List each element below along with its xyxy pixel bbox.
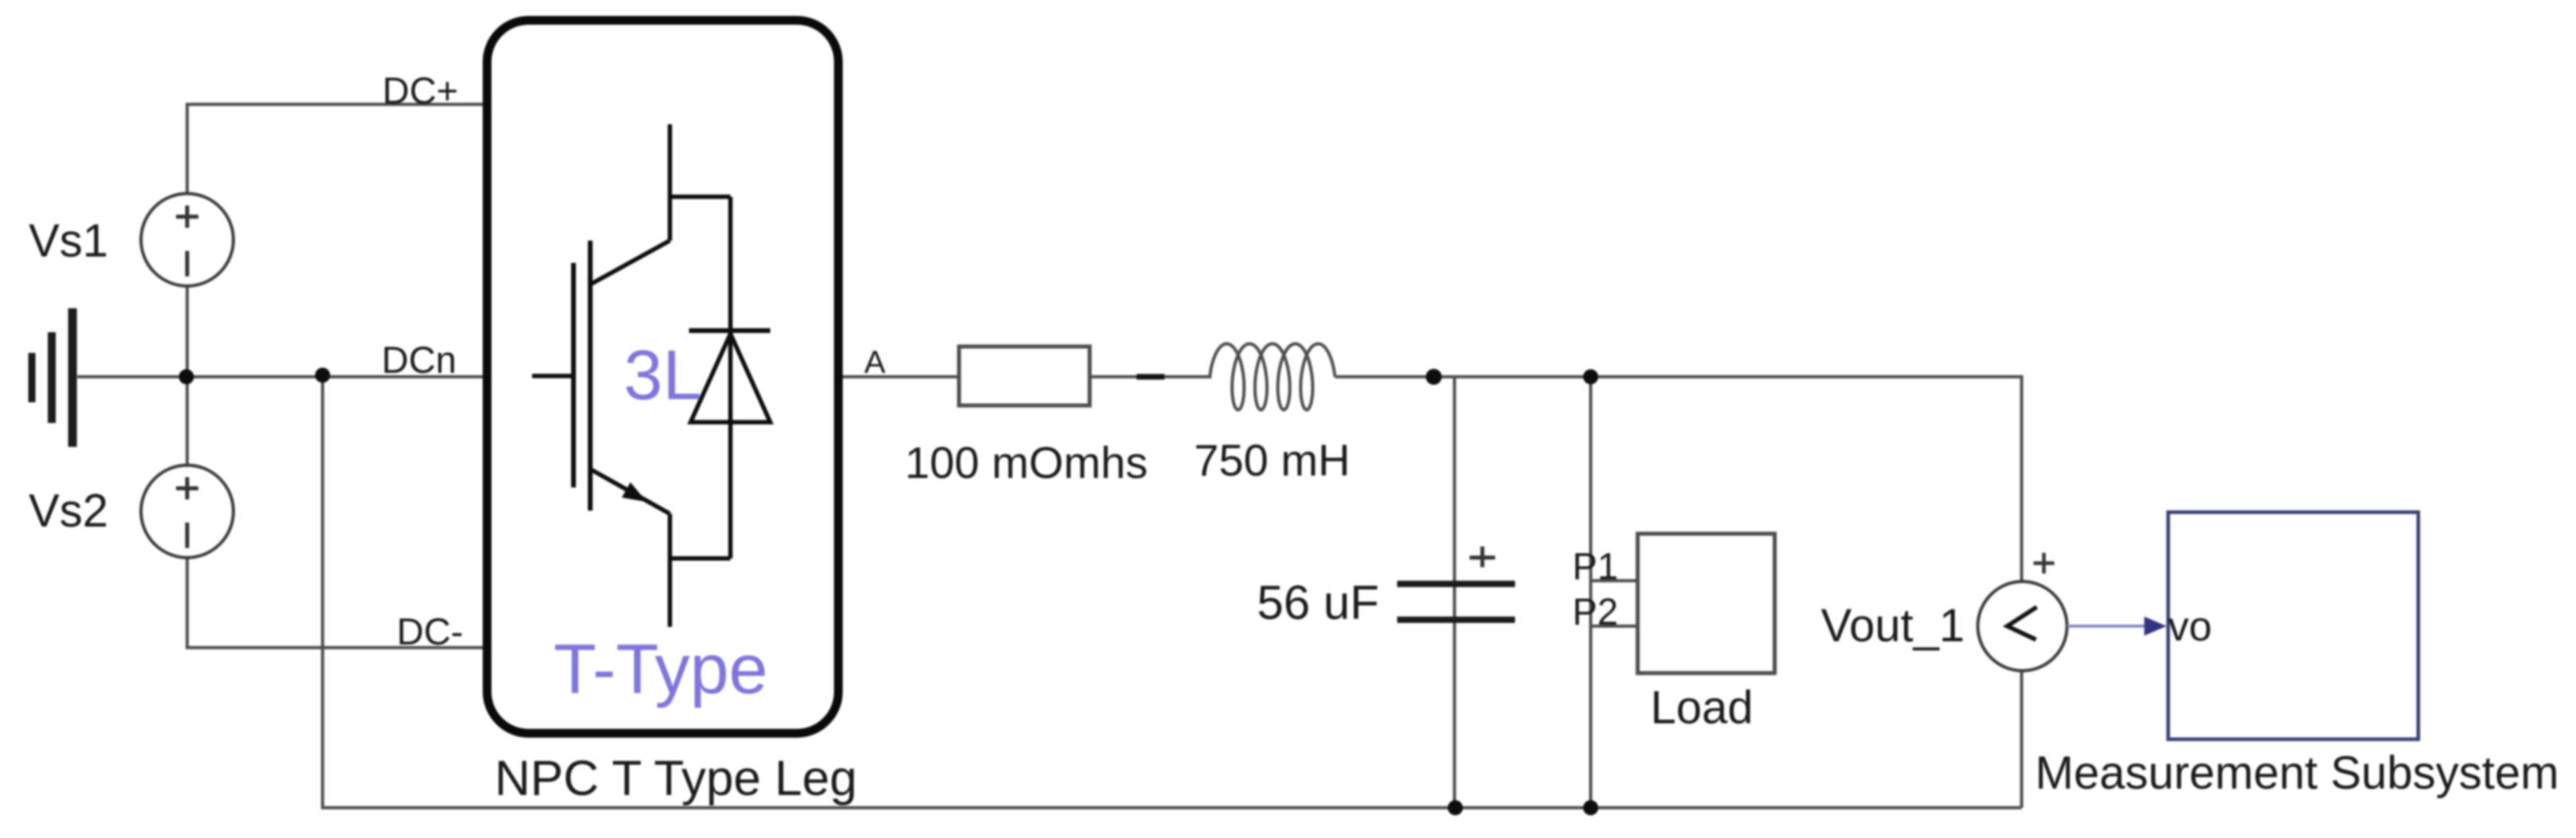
svg-text:Vs1: Vs1 <box>29 215 108 267</box>
svg-text:DC-: DC- <box>397 610 464 652</box>
svg-text:P2: P2 <box>1572 590 1619 632</box>
svg-text:DCn: DCn <box>382 339 456 381</box>
svg-text:Vs2: Vs2 <box>29 485 108 537</box>
svg-text:DC+: DC+ <box>382 69 458 112</box>
svg-text:P1: P1 <box>1572 545 1619 587</box>
svg-text:100 mOmhs: 100 mOmhs <box>905 437 1148 488</box>
svg-text:Load: Load <box>1650 682 1753 734</box>
svg-text:Vout_1: Vout_1 <box>1821 600 1965 652</box>
svg-text:NPC T Type Leg: NPC T Type Leg <box>495 751 857 806</box>
svg-text:T-Type: T-Type <box>554 629 768 708</box>
svg-text:Measurement Subsystem: Measurement Subsystem <box>2035 747 2559 799</box>
svg-text:750 mH: 750 mH <box>1194 435 1350 485</box>
svg-text:3L: 3L <box>624 335 702 414</box>
svg-text:A: A <box>864 345 886 380</box>
svg-text:vo: vo <box>2168 604 2212 650</box>
svg-text:56 uF: 56 uF <box>1257 576 1379 629</box>
